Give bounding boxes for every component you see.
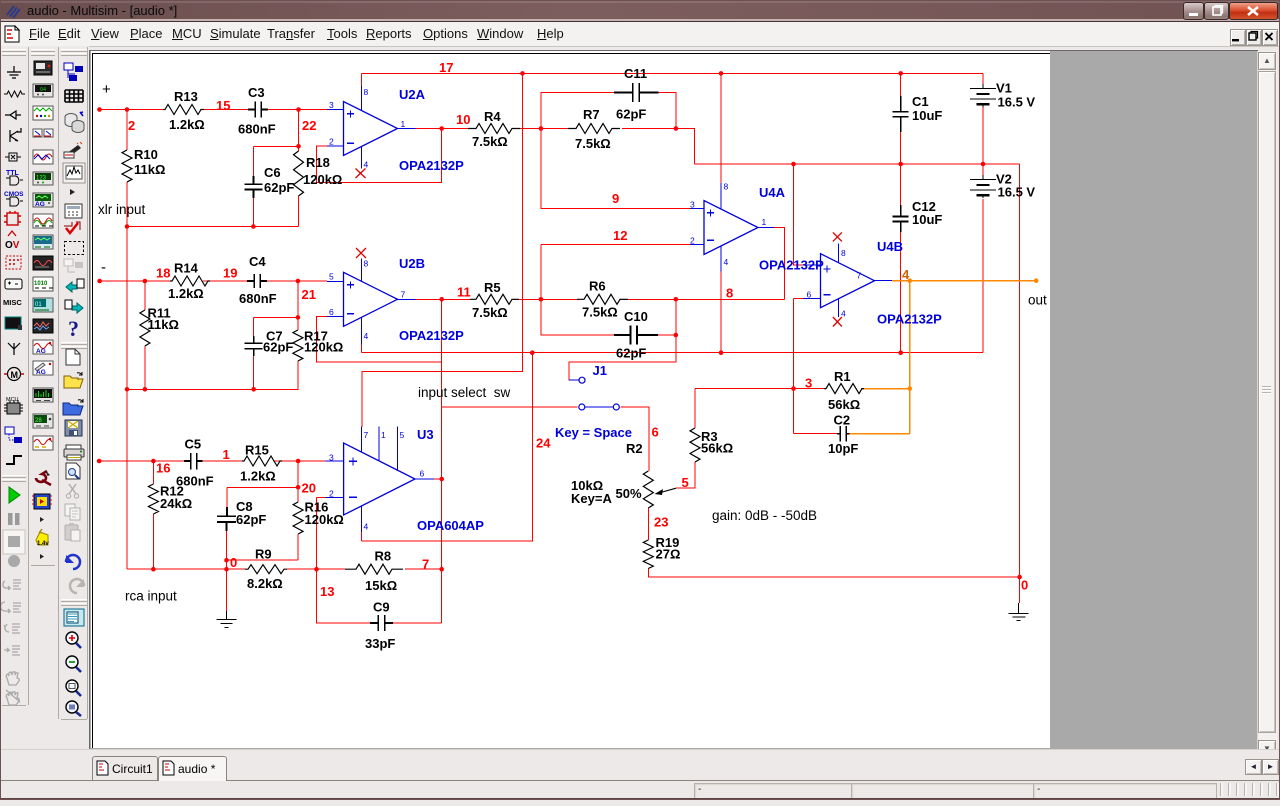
wire net17 riser to U3 pin7 [362, 73, 523, 427]
wire mid supply rail y=164 [695, 163, 1020, 165]
svg-text:0: 0 [230, 555, 237, 570]
wire C8 branch [227, 487, 299, 569]
wire ground right stub [1019, 577, 1021, 603]
svg-text:C11: C11 [624, 66, 647, 81]
svg-text:50%: 50% [616, 486, 642, 501]
op-amp U2A [344, 102, 398, 156]
wire U2A feedback net [316, 129, 441, 183]
svg-text:8: 8 [364, 259, 369, 269]
wire U4A pin4 to rail [720, 272, 722, 353]
menu bar [0, 22, 1280, 47]
svg-text:24: 24 [536, 436, 551, 451]
wire C2 left lead [794, 433, 838, 435]
svg-text:OPA2132P: OPA2132P [399, 328, 464, 343]
wire U2B feedback net [316, 299, 441, 362]
svg-text:C3: C3 [248, 85, 265, 100]
svg-text:11kΩ: 11kΩ [148, 317, 179, 332]
svg-text:R9: R9 [255, 547, 272, 562]
capacitor C4 [247, 274, 267, 288]
col2 instrument icons [32, 61, 53, 559]
wire R1 right orange [861, 388, 910, 390]
capacitor C6 [244, 176, 262, 198]
wire R11 column [144, 281, 146, 389]
svg-text:33pF: 33pF [365, 636, 395, 651]
wire orange riser [909, 281, 911, 434]
wire xlr- bottom rail [127, 388, 298, 390]
wire C6 branch [253, 146, 298, 226]
svg-text:Key=A: Key=A [571, 491, 612, 506]
capacitor C3 [248, 102, 268, 118]
svg-text:C1: C1 [912, 94, 929, 109]
svg-text:R7: R7 [583, 107, 600, 122]
wire C7 branch [254, 317, 298, 389]
wire V2 top [982, 164, 984, 176]
svg-text:10uF: 10uF [912, 108, 942, 123]
svg-text:OPA2132P: OPA2132P [877, 312, 942, 327]
wire C2 right orange [850, 433, 910, 435]
svg-text:V1: V1 [996, 81, 1012, 96]
wire U2A output row net 10 [416, 129, 695, 165]
svg-text:0: 0 [1021, 578, 1028, 593]
svg-text:13: 13 [320, 584, 334, 599]
svg-text:R13: R13 [174, 89, 198, 104]
svg-text:9: 9 [612, 191, 619, 206]
resistor R17 [293, 330, 303, 361]
svg-text:7.5kΩ: 7.5kΩ [472, 134, 508, 149]
wire R12 column [152, 461, 154, 569]
wire V2 bottom [982, 199, 984, 353]
svg-text:R15: R15 [245, 443, 269, 458]
capacitor C10 [614, 326, 658, 345]
svg-text:2: 2 [128, 118, 135, 133]
resistor R6 [577, 294, 628, 304]
svg-text:7: 7 [422, 557, 429, 572]
svg-text:+: + [102, 81, 111, 98]
wire R17 bottom [297, 361, 299, 389]
wire net 17 top rail [362, 72, 984, 74]
svg-text:R5: R5 [484, 280, 501, 295]
svg-text:11kΩ: 11kΩ [134, 162, 165, 177]
capacitor C5 [184, 453, 203, 469]
svg-text:6: 6 [420, 469, 425, 479]
svg-text:20: 20 [302, 481, 316, 496]
resistor R11 [140, 310, 150, 346]
status bar [0, 781, 1280, 798]
svg-text:120kΩ: 120kΩ [303, 172, 342, 187]
svg-text:62pF: 62pF [616, 346, 646, 361]
svg-text:8: 8 [841, 248, 846, 258]
svg-text:C10: C10 [624, 309, 648, 324]
svg-text:12: 12 [613, 228, 627, 243]
svg-text:4: 4 [364, 331, 369, 341]
wire switch common to pole [442, 406, 578, 408]
no-connect X U4B pin4 [833, 317, 842, 327]
orange junction dots net 4 [908, 278, 913, 283]
svg-text:Key = Space: Key = Space [555, 425, 632, 440]
svg-text:3: 3 [329, 453, 334, 463]
ground rca [217, 611, 237, 628]
svg-text:4: 4 [364, 160, 369, 170]
svg-text:audio *: audio * [178, 762, 216, 776]
wire node20 down to R16 [297, 461, 299, 560]
wire R3 top to net3 [695, 389, 794, 428]
wire rca ground drop [226, 569, 228, 611]
wire V1 bottom [982, 73, 984, 164]
svg-text:15kΩ: 15kΩ [365, 578, 397, 593]
resistor R3 [690, 428, 700, 462]
wire C11 loop [541, 93, 676, 129]
op-amp U4B [821, 254, 875, 308]
capacitor C1 [893, 96, 909, 132]
vertical scrollbar [1257, 51, 1277, 757]
capacitor C7 [245, 336, 263, 356]
wire R3 bottom to wiper [676, 462, 695, 488]
svg-text:4: 4 [364, 522, 369, 532]
svg-text:U2A: U2A [399, 87, 426, 102]
svg-text:3: 3 [329, 100, 334, 110]
svg-text:OPA2132P: OPA2132P [399, 158, 464, 173]
junction dots [97, 107, 102, 112]
wire U2B output riser to switch common [441, 362, 443, 623]
ground right [1009, 603, 1029, 621]
svg-text:62pF: 62pF [264, 180, 294, 195]
svg-text:C9: C9 [373, 600, 390, 615]
svg-text:C5: C5 [185, 437, 202, 452]
svg-text:7: 7 [364, 430, 369, 440]
svg-text:10pF: 10pF [828, 441, 858, 456]
svg-text:2: 2 [690, 236, 695, 246]
resistor R16 [293, 502, 303, 534]
svg-text:out: out [1028, 293, 1047, 308]
wire rca input row net 16/1/20 [99, 460, 326, 462]
svg-text:2: 2 [329, 137, 334, 147]
svg-text:56kΩ: 56kΩ [828, 397, 860, 412]
wire output orange net 4 [892, 280, 1036, 282]
svg-text:16.5 V: 16.5 V [998, 95, 1036, 110]
svg-text:10: 10 [456, 112, 470, 127]
capacitor C9 [370, 615, 393, 631]
svg-text:R18: R18 [306, 155, 330, 170]
resistor R13 [163, 105, 204, 115]
svg-text:8: 8 [364, 87, 369, 97]
wire net9 to U4A pin3 [541, 129, 690, 209]
wire node21 down [297, 281, 299, 330]
resistor R7 [568, 124, 620, 134]
wire R10 bottom to rail [126, 182, 128, 227]
svg-text:8.2kΩ: 8.2kΩ [247, 576, 283, 591]
svg-text:680nF: 680nF [238, 122, 276, 137]
op-amp U3 [344, 443, 415, 515]
svg-text:4: 4 [902, 267, 910, 282]
wire U2B pin4 to rail [361, 345, 363, 353]
wire node2 down to R10 [126, 110, 128, 151]
svg-text:62pF: 62pF [263, 340, 293, 355]
resistor R4 [468, 124, 520, 134]
capacitor C2 [837, 426, 850, 442]
svg-text:1.2kΩ: 1.2kΩ [240, 469, 276, 484]
svg-text:3: 3 [690, 200, 695, 210]
svg-text:C2: C2 [834, 413, 851, 428]
resistor R18 [294, 151, 304, 196]
svg-text:OPA604AP: OPA604AP [417, 518, 484, 533]
switch J1 contact circles [579, 404, 585, 410]
wire U4B pin6 riser net 3 [794, 299, 804, 434]
svg-text:18: 18 [156, 266, 170, 281]
svg-text:R1: R1 [834, 369, 851, 384]
wire C9 loop [317, 569, 442, 623]
wire C12 column [900, 164, 902, 353]
svg-text:7.5kΩ: 7.5kΩ [582, 305, 618, 320]
wire ground riser right [1019, 164, 1021, 603]
svg-text:4: 4 [841, 309, 846, 319]
svg-text:U4A: U4A [759, 185, 786, 200]
svg-text:8: 8 [724, 182, 729, 192]
svg-text:gain: 0dB - -50dB: gain: 0dB - -50dB [712, 508, 817, 523]
svg-text:19: 19 [223, 266, 237, 281]
wire rca bottom row R9/R8 net [127, 568, 442, 570]
svg-text:1.2kΩ: 1.2kΩ [169, 117, 205, 132]
svg-text:U2B: U2B [399, 256, 425, 271]
resistor R9 [245, 565, 287, 574]
svg-text:27Ω: 27Ω [656, 547, 681, 562]
svg-text:120kΩ: 120kΩ [305, 512, 344, 527]
svg-text:24kΩ: 24kΩ [160, 496, 192, 511]
svg-text:5: 5 [682, 475, 689, 490]
capacitor C11 [614, 83, 659, 102]
wire net12 to U4A pin2 [541, 245, 690, 300]
svg-text:7.5kΩ: 7.5kΩ [472, 305, 508, 320]
wire xlr- input row net 18/19/21 [100, 280, 327, 282]
wire U4A pin8 riser [720, 73, 722, 183]
wire U3 pin2 feedback riser net 13 [317, 498, 326, 570]
svg-text:8: 8 [726, 286, 733, 301]
potentiometer R2 wiper arrow [661, 488, 676, 492]
resistor R19 [643, 540, 653, 569]
svg-text:680nF: 680nF [239, 291, 277, 306]
svg-text:1.2kΩ: 1.2kΩ [168, 286, 204, 301]
svg-text:Circuit1: Circuit1 [112, 762, 153, 776]
svg-text:6: 6 [329, 307, 334, 317]
svg-text:11: 11 [457, 285, 471, 300]
battery V2 [970, 175, 996, 198]
wire U3 pin4 to box [360, 532, 362, 541]
wire negative supply rail y=352.7 [362, 352, 984, 354]
svg-text:62pF: 62pF [616, 107, 646, 122]
tabs [0, 749, 1280, 782]
resistor R8 [345, 564, 403, 574]
wire U2B output row net 11/8 [416, 298, 785, 300]
svg-text:6: 6 [807, 290, 812, 300]
svg-text:3: 3 [805, 376, 812, 391]
svg-text:2: 2 [329, 489, 334, 499]
resistor R14 [170, 276, 210, 286]
wire U4B pin5 riser [794, 164, 804, 265]
no-connect X U2B pin8 [356, 248, 366, 258]
wire R19 bottom rail to ground [648, 569, 1018, 578]
toolbars zone [0, 46, 89, 800]
wire U4A output riser [774, 228, 785, 300]
potentiometer R2 [643, 471, 653, 508]
svg-text:120kΩ: 120kΩ [304, 340, 343, 355]
wire switch right to R2 [621, 407, 649, 471]
op-amp U2B [344, 272, 398, 326]
svg-text:62pF: 62pF [236, 512, 266, 527]
svg-text:22: 22 [302, 118, 316, 133]
col1 component icons [4, 66, 25, 161]
main canvas [89, 50, 1258, 750]
switch J1 pole bar [569, 380, 613, 407]
svg-text:J1: J1 [593, 363, 607, 378]
svg-text:1: 1 [223, 447, 230, 462]
svg-text:input select sw: input select sw [418, 385, 511, 400]
resistor R10 [122, 150, 132, 182]
svg-text:1: 1 [762, 217, 767, 227]
svg-text:-: - [101, 259, 106, 276]
svg-text:16.5 V: 16.5 V [998, 185, 1036, 200]
wire xlr+ bottom rail [127, 226, 299, 228]
col3 standard icons [63, 63, 85, 716]
svg-text:7: 7 [857, 271, 862, 281]
resistor R5 [470, 294, 519, 304]
svg-text:17: 17 [439, 60, 453, 75]
wire net24 box around U3 [361, 353, 532, 541]
svg-text:R6: R6 [589, 279, 606, 294]
svg-text:10uF: 10uF [912, 212, 942, 227]
svg-text:rca input: rca input [125, 589, 177, 604]
svg-text:R14: R14 [174, 261, 199, 276]
svg-text:xlr input: xlr input [98, 202, 146, 217]
no-connect X U4B pin8 [833, 232, 842, 241]
svg-text:R10: R10 [134, 147, 158, 162]
wire C1 column [900, 73, 902, 164]
svg-text:56kΩ: 56kΩ [701, 441, 733, 456]
wire C10 loop [541, 299, 676, 335]
svg-text:7: 7 [401, 290, 406, 300]
resistor R12 [148, 484, 158, 514]
capacitor C8 [217, 507, 236, 531]
svg-text:5: 5 [400, 430, 405, 440]
svg-text:U3: U3 [417, 427, 434, 442]
svg-text:1: 1 [381, 430, 386, 440]
title bar [0, 0, 1280, 22]
svg-text:5: 5 [329, 272, 334, 282]
svg-text:6: 6 [652, 425, 659, 440]
wire node22 down to R18 [298, 110, 300, 227]
svg-text:7.5kΩ: 7.5kΩ [575, 136, 611, 151]
wire net3 to R1 [794, 388, 825, 390]
svg-text:23: 23 [654, 515, 668, 530]
capacitor C12 [893, 205, 909, 232]
svg-text:16: 16 [156, 461, 170, 476]
svg-text:C6: C6 [264, 165, 281, 180]
svg-text:4: 4 [724, 257, 729, 267]
no-connect X U2A pin4 [356, 169, 366, 179]
battery V1 [970, 84, 996, 107]
wire U3 output to net7 column [434, 478, 442, 480]
wire U2A pin8 riser [361, 73, 363, 86]
resistor R1 [824, 384, 864, 394]
svg-text:C4: C4 [249, 254, 266, 269]
wire C10 right to J1 contact [569, 335, 676, 380]
svg-text:U4B: U4B [877, 239, 903, 254]
resistor R15 [242, 456, 282, 466]
svg-text:15: 15 [216, 98, 230, 113]
wire R2 bottom net 23 [647, 508, 649, 540]
wire xlr+ input row net 2/15/22 [100, 109, 328, 111]
svg-text:21: 21 [302, 287, 316, 302]
svg-text:1: 1 [401, 119, 406, 129]
svg-text:R2: R2 [626, 441, 643, 456]
sheet frame border [93, 53, 1051, 748]
wire net0 spur [227, 559, 299, 561]
op-amp U4A [704, 201, 758, 255]
wire long left riser x=127 [126, 227, 128, 570]
svg-text:R8: R8 [375, 549, 392, 564]
svg-text:OPA2132P: OPA2132P [759, 258, 824, 273]
svg-text:R4: R4 [484, 109, 501, 124]
